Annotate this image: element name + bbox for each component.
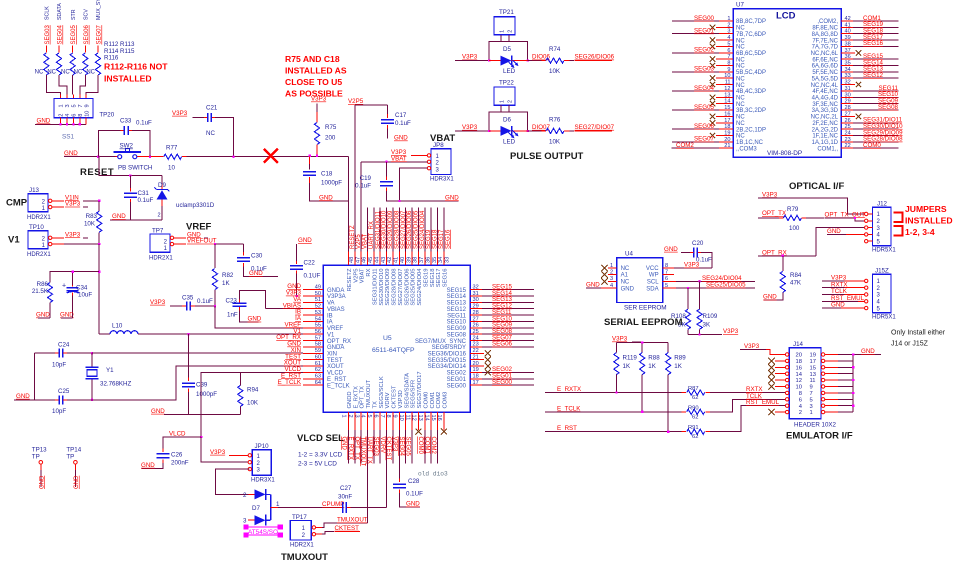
svg-text:8: 8 bbox=[665, 263, 668, 269]
net label V2P5 bbox=[348, 98, 387, 105]
jumper installed 1-2 bbox=[894, 213, 903, 223]
svg-text:GND: GND bbox=[341, 437, 347, 451]
U7 pin 36 6F,6E,NC bbox=[812, 53, 898, 63]
power GND label reset bbox=[64, 150, 78, 157]
U7 pin 26 2F,2E,NC bbox=[812, 117, 902, 127]
svg-text:SEG36/DIO16: SEG36/DIO16 bbox=[428, 352, 467, 358]
svg-text:3: 3 bbox=[65, 104, 71, 107]
net label GND J15Z bbox=[822, 302, 864, 309]
svg-text:2: 2 bbox=[799, 410, 802, 416]
junction reset-right bbox=[149, 156, 151, 158]
svg-text:COM0: COM0 bbox=[863, 142, 881, 149]
svg-text:SEG27/DIO07: SEG27/DIO07 bbox=[398, 269, 404, 306]
svg-text:1B,1C,NC: 1B,1C,NC bbox=[736, 140, 764, 146]
resistor R112 bbox=[35, 53, 49, 76]
connector TP17 bbox=[290, 514, 316, 549]
U5 pin 1 GNDD bbox=[341, 391, 353, 463]
title VBAT bbox=[430, 133, 455, 144]
title EMULATOR I/F bbox=[786, 431, 853, 442]
svg-text:5: 5 bbox=[665, 283, 668, 289]
svg-text:GNDD: GNDD bbox=[347, 391, 353, 408]
svg-text:5F,5E,NC: 5F,5E,NC bbox=[812, 70, 838, 76]
svg-text:46: 46 bbox=[362, 257, 368, 263]
U5 pin 24 SEG7/MUX_SYNC bbox=[415, 334, 534, 344]
U5 pin 15 COM2 bbox=[430, 392, 442, 464]
svg-text:HDR5X1: HDR5X1 bbox=[872, 315, 896, 321]
svg-text:J14 or J15Z: J14 or J15Z bbox=[891, 341, 929, 348]
svg-text:GND: GND bbox=[763, 294, 777, 301]
svg-text:C21: C21 bbox=[206, 105, 218, 112]
svg-text:1K: 1K bbox=[222, 280, 230, 287]
svg-text:GNDA: GNDA bbox=[327, 288, 344, 294]
wire XOUT bbox=[92, 366, 303, 400]
wire VREF to U5 bbox=[215, 306, 303, 328]
svg-text:DIO07: DIO07 bbox=[532, 124, 550, 131]
svg-text:COM3: COM3 bbox=[443, 392, 449, 409]
svg-text:6F,6E,NC: 6F,6E,NC bbox=[812, 57, 838, 63]
svg-text:U7: U7 bbox=[736, 2, 744, 9]
net label OPT_TX_OUT bbox=[806, 211, 865, 220]
svg-text:SEG02: SEG02 bbox=[447, 371, 467, 377]
svg-text:JUMPERS: JUMPERS bbox=[905, 204, 947, 214]
svg-text:45: 45 bbox=[368, 257, 374, 263]
U7 pin 24 1F,1E,NC bbox=[812, 129, 903, 139]
U5 pin 64 E_TCLK bbox=[278, 379, 350, 390]
svg-text:15: 15 bbox=[430, 415, 436, 421]
svg-text:SEG7/MUX_SYNC: SEG7/MUX_SYNC bbox=[415, 339, 467, 345]
svg-text:GND: GND bbox=[248, 316, 262, 323]
junction VBAT-C19 bbox=[385, 161, 387, 163]
svg-text:1nF: 1nF bbox=[227, 312, 238, 319]
U5 pin 63 E_RST bbox=[281, 372, 347, 383]
svg-text:44: 44 bbox=[375, 257, 381, 263]
svg-text:13: 13 bbox=[810, 372, 816, 378]
test point TP21 bbox=[494, 9, 515, 35]
svg-text:TP17: TP17 bbox=[292, 514, 307, 521]
junction C39-V1 bbox=[187, 333, 189, 335]
U5 pin 47 V2P5 bbox=[353, 105, 362, 283]
svg-text:NC: NC bbox=[736, 26, 745, 32]
svg-text:TP: TP bbox=[66, 454, 74, 461]
wire SEG06 stub bbox=[84, 46, 86, 53]
svg-text:D9: D9 bbox=[158, 182, 166, 189]
svg-text:36: 36 bbox=[425, 257, 431, 263]
U5 pin 35 SEG18 bbox=[430, 208, 439, 288]
svg-text:10pF: 10pF bbox=[52, 408, 66, 415]
svg-text:SEG5/SFR: SEG5/SFR bbox=[411, 380, 417, 409]
U5 pin 46 VBAT bbox=[360, 162, 369, 283]
junction C35-R82 bbox=[214, 305, 216, 307]
wire to SS1 bbox=[72, 75, 75, 99]
svg-text:R112-R116 NOT: R112-R116 NOT bbox=[104, 62, 168, 72]
svg-text:GND: GND bbox=[621, 286, 635, 292]
svg-text:1K: 1K bbox=[648, 363, 656, 370]
U5 pin 60 TEST bbox=[285, 353, 342, 364]
svg-text:V3P3: V3P3 bbox=[392, 437, 398, 452]
svg-text:C20: C20 bbox=[692, 240, 704, 247]
svg-text:1K: 1K bbox=[623, 363, 631, 370]
svg-text:OPT_TX: OPT_TX bbox=[360, 386, 366, 409]
svg-text:10: 10 bbox=[84, 111, 90, 117]
wire to SS1 bbox=[80, 75, 86, 99]
svg-text:VBIAS: VBIAS bbox=[327, 307, 345, 313]
svg-text:15: 15 bbox=[810, 365, 816, 371]
svg-text:1A,1G,1D: 1A,1G,1D bbox=[812, 140, 839, 146]
svg-text:62: 62 bbox=[692, 434, 698, 440]
U5 pin 26 SEG09 bbox=[447, 322, 534, 332]
svg-text:GND: GND bbox=[394, 135, 408, 142]
svg-text:U5: U5 bbox=[383, 335, 392, 342]
svg-text:9: 9 bbox=[392, 415, 398, 418]
net label SEG06 bbox=[84, 24, 90, 44]
svg-text:COM1: COM1 bbox=[423, 437, 429, 455]
resistor R76 bbox=[542, 116, 570, 145]
U5 pin 4 TMUXOUT bbox=[360, 379, 372, 523]
svg-text:U4: U4 bbox=[625, 251, 633, 258]
svg-text:63: 63 bbox=[315, 374, 321, 380]
svg-text:VLCD SEL: VLCD SEL bbox=[297, 433, 344, 444]
U5 pin 42 SEG29/DIO09 bbox=[385, 208, 394, 306]
title SERIAL EEPROM bbox=[604, 317, 683, 328]
net label GND TP7 bbox=[174, 231, 208, 238]
net label E_RXTX bbox=[545, 386, 682, 393]
svg-text:0.1uF: 0.1uF bbox=[395, 120, 411, 127]
svg-text:10K: 10K bbox=[84, 221, 96, 228]
junction SCL-R109 bbox=[699, 280, 701, 282]
svg-text:2: 2 bbox=[508, 30, 514, 33]
svg-text:INSTALLED: INSTALLED bbox=[104, 74, 152, 84]
svg-text:NC: NC bbox=[736, 57, 745, 63]
resistor R82 bbox=[212, 244, 234, 309]
svg-text:A1: A1 bbox=[621, 273, 629, 279]
U5 pin 56 V1 bbox=[293, 328, 335, 339]
svg-text:INSTALLED: INSTALLED bbox=[905, 216, 953, 226]
title VREF bbox=[186, 222, 212, 233]
svg-text:V3P3A: V3P3A bbox=[327, 294, 346, 300]
resistor R108 bbox=[671, 288, 691, 335]
svg-text:TP10: TP10 bbox=[29, 224, 44, 231]
svg-text:VLCD: VLCD bbox=[169, 431, 186, 438]
svg-text:SEG03: SEG03 bbox=[45, 24, 51, 44]
svg-text:0.1uF: 0.1uF bbox=[696, 257, 712, 264]
svg-text:R75: R75 bbox=[325, 124, 337, 131]
svg-text:SEG14: SEG14 bbox=[447, 294, 467, 300]
U5 pin 62 VLCD bbox=[284, 366, 343, 377]
svg-text:10K: 10K bbox=[549, 138, 561, 145]
svg-text:200: 200 bbox=[325, 135, 336, 142]
test point TP20 bbox=[99, 112, 114, 119]
resistor R74 bbox=[542, 46, 570, 75]
svg-text:3: 3 bbox=[353, 415, 359, 418]
svg-text:OPT_TX_OUT: OPT_TX_OUT bbox=[825, 211, 866, 218]
svg-text:RST_EMUL: RST_EMUL bbox=[746, 399, 780, 406]
test point TP22 bbox=[494, 79, 515, 105]
connector SS1 bbox=[54, 99, 93, 141]
svg-text:V3P3D: V3P3D bbox=[398, 390, 404, 408]
power V3P3 R block bbox=[612, 336, 642, 343]
svg-text:1F,1E,NC: 1F,1E,NC bbox=[812, 134, 838, 140]
U5 pin 32 SEG15 bbox=[447, 283, 534, 293]
U7 pin 9 5B,5C,4DP bbox=[672, 66, 766, 76]
net label V3P3 TP10 bbox=[52, 231, 88, 238]
U5 pin 37 SEG24/DIO04 bbox=[417, 208, 426, 306]
connector JP10 bbox=[248, 443, 275, 484]
svg-text:100: 100 bbox=[789, 225, 800, 232]
svg-text:GND: GND bbox=[445, 194, 459, 201]
wire VLCD to JP10 bbox=[201, 437, 249, 462]
svg-text:33: 33 bbox=[445, 257, 451, 263]
svg-text:VBAT: VBAT bbox=[391, 155, 407, 162]
svg-text:SDA: SDA bbox=[646, 286, 658, 292]
U5 pin 8 CKTEST bbox=[385, 385, 397, 464]
U7 pin 11 NC bbox=[710, 80, 746, 89]
wire TMUXOUT from TP17 bbox=[316, 517, 368, 528]
svg-text:6B,6C,5DP: 6B,6C,5DP bbox=[736, 51, 766, 57]
U7 pin 4 NC bbox=[710, 35, 746, 44]
svg-text:SEG19: SEG19 bbox=[423, 269, 429, 288]
svg-text:NC: NC bbox=[736, 76, 745, 82]
svg-text:12: 12 bbox=[796, 378, 802, 384]
svg-text:7F,7E,NC: 7F,7E,NC bbox=[812, 38, 838, 44]
svg-text:SEG37/DIO17: SEG37/DIO17 bbox=[417, 371, 423, 408]
connector JP8 bbox=[427, 142, 454, 183]
svg-text:NC: NC bbox=[206, 130, 215, 137]
svg-text:43: 43 bbox=[381, 257, 387, 263]
svg-text:6: 6 bbox=[665, 276, 668, 282]
wire SEG03 stub bbox=[45, 46, 47, 53]
svg-text:V3P3: V3P3 bbox=[172, 110, 188, 117]
svg-text:1: 1 bbox=[810, 410, 813, 416]
svg-text:200nF: 200nF bbox=[171, 460, 189, 467]
svg-text:NC,NC,6L: NC,NC,6L bbox=[811, 51, 839, 57]
capacitor C17 bbox=[381, 105, 411, 142]
svg-text:18: 18 bbox=[796, 359, 802, 365]
diode D9 uclamp3301D bbox=[155, 176, 215, 220]
svg-text:2A,2G,2D: 2A,2G,2D bbox=[812, 127, 839, 133]
svg-text:RX: RX bbox=[366, 268, 372, 276]
U5 pin 31 SEG14 bbox=[447, 290, 534, 300]
svg-text:1: 1 bbox=[610, 263, 613, 269]
svg-text:V3P3: V3P3 bbox=[65, 231, 81, 238]
svg-text:XOUT: XOUT bbox=[327, 364, 344, 370]
svg-text:1000pF: 1000pF bbox=[196, 391, 217, 398]
svg-text:PULSE OUTPUT: PULSE OUTPUT bbox=[510, 151, 584, 162]
svg-text:VA: VA bbox=[327, 301, 335, 307]
svg-text:V3P3: V3P3 bbox=[612, 336, 628, 343]
svg-text:E_RXTX: E_RXTX bbox=[347, 437, 353, 460]
svg-text:SEG3/SCLK: SEG3/SCLK bbox=[379, 376, 385, 408]
svg-text:SEG16: SEG16 bbox=[443, 269, 449, 288]
svg-text:SEG16: SEG16 bbox=[863, 40, 884, 47]
U5 pin 45 RX bbox=[366, 208, 375, 277]
U5 pin 33 SEG16 bbox=[443, 208, 452, 288]
net label SEG26/DIO06 bbox=[570, 54, 615, 61]
svg-text:TP14: TP14 bbox=[66, 447, 81, 454]
svg-text:UART_TX: UART_TX bbox=[366, 437, 372, 464]
svg-text:GND: GND bbox=[298, 237, 312, 244]
svg-text:NC: NC bbox=[621, 280, 630, 286]
title TMUXOUT bbox=[281, 552, 328, 563]
net label OPT_RX bbox=[758, 249, 816, 256]
svg-text:2: 2 bbox=[158, 213, 161, 219]
U7 pin 31 4F,4E,NC bbox=[812, 85, 898, 95]
svg-text:NC: NC bbox=[621, 266, 630, 272]
svg-text:3: 3 bbox=[810, 404, 813, 410]
net label MUX_SYN bbox=[96, 0, 102, 20]
wire SEG05 stub bbox=[72, 46, 74, 53]
U7 pin 19 NC bbox=[710, 131, 746, 140]
svg-text:TMUXOUT: TMUXOUT bbox=[281, 552, 328, 561]
svg-text:HDR2X1: HDR2X1 bbox=[149, 256, 173, 262]
LED D6 bbox=[489, 116, 528, 145]
svg-text:SEG09: SEG09 bbox=[447, 326, 467, 332]
svg-text:10: 10 bbox=[398, 415, 404, 421]
svg-text:NC: NC bbox=[35, 70, 44, 76]
title CMP bbox=[6, 198, 28, 209]
U7 pin 21 ,,COM3 bbox=[672, 142, 758, 152]
no-connect X J14 pin 10 bbox=[768, 383, 785, 389]
svg-text:SEG25/DIO05: SEG25/DIO05 bbox=[411, 269, 417, 306]
U5 pin 13 COM0 bbox=[417, 392, 429, 464]
text J14 or J15Z bbox=[891, 341, 929, 348]
designators R114 R115 bbox=[104, 48, 135, 55]
svg-text:NC: NC bbox=[736, 115, 745, 121]
U5 pin 17 SEG00 bbox=[447, 379, 534, 389]
svg-text:SEG07: SEG07 bbox=[97, 24, 103, 44]
svg-text:HEADER 10X2: HEADER 10X2 bbox=[794, 422, 837, 429]
svg-text:4A,4G,4D: 4A,4G,4D bbox=[812, 96, 839, 102]
warning text R112-R116 NOT INSTALLED bbox=[104, 62, 168, 84]
svg-text:OPT_TX: OPT_TX bbox=[762, 210, 786, 217]
svg-text:SCV: SCV bbox=[84, 9, 90, 20]
svg-text:4B,4C,3DP: 4B,4C,3DP bbox=[736, 89, 766, 95]
svg-text:2: 2 bbox=[59, 114, 65, 117]
net label SEG07 bbox=[97, 24, 103, 44]
svg-text:Only Install either: Only Install either bbox=[891, 330, 946, 337]
net label SEG05 bbox=[71, 24, 77, 44]
U7 pin 20 1B,1C,NC bbox=[672, 136, 764, 146]
svg-text:V2P5: V2P5 bbox=[353, 269, 359, 283]
no-connect X on reset line bbox=[264, 149, 278, 163]
svg-text:J15Z: J15Z bbox=[875, 267, 889, 274]
U5 pin 41 SEG28/DIO08 bbox=[392, 208, 401, 306]
wire to SS1 bbox=[86, 75, 98, 99]
svg-text:TMUXOUT: TMUXOUT bbox=[337, 517, 368, 524]
svg-text:R119: R119 bbox=[623, 355, 638, 362]
svg-text:SEG17: SEG17 bbox=[436, 269, 442, 288]
U7 pin 18 2B,2C,1DP bbox=[672, 123, 766, 133]
svg-text:OPTICAL I/F: OPTICAL I/F bbox=[789, 181, 844, 192]
junction OPT_RX bbox=[782, 255, 784, 257]
svg-text:E_TCLK: E_TCLK bbox=[278, 379, 302, 386]
svg-text:R87: R87 bbox=[688, 386, 699, 392]
net label DIO06 bbox=[528, 54, 551, 61]
junction C22-V3P3 bbox=[296, 295, 298, 297]
U7 pin 30 4A,4G,4D bbox=[812, 91, 899, 101]
svg-text:2: 2 bbox=[508, 100, 514, 103]
crystal Y1 32.768KHZ bbox=[86, 353, 132, 400]
svg-text:SEG13: SEG13 bbox=[447, 301, 467, 307]
diode D7 dual bbox=[243, 489, 280, 526]
svg-text:3K: 3K bbox=[703, 322, 711, 329]
svg-text:HDR5X1: HDR5X1 bbox=[872, 248, 896, 254]
net label TCLK J15Z bbox=[822, 288, 864, 295]
U5 pin 10 SEG4/SDATA bbox=[398, 373, 410, 464]
svg-text:CKTEST: CKTEST bbox=[335, 525, 360, 532]
svg-text:CKTEST: CKTEST bbox=[392, 385, 398, 408]
wire J14 right pins to GND bbox=[825, 348, 881, 412]
U7 pin 39 7F,7E,NC bbox=[812, 34, 898, 44]
U7 pin 41 8F,8E,NC bbox=[812, 21, 898, 31]
svg-text:49: 49 bbox=[315, 284, 321, 290]
U4 pin 5 SDA SEG25/DIO05 bbox=[663, 282, 755, 289]
wire R108 R109 to V3P3 bbox=[688, 328, 739, 335]
connector J15Z bbox=[865, 267, 897, 320]
svg-text:TP21: TP21 bbox=[499, 9, 514, 16]
resistor R109 bbox=[697, 281, 718, 334]
junction R88-E_TCLK bbox=[641, 411, 643, 413]
svg-text:4: 4 bbox=[65, 114, 71, 117]
svg-text:C33: C33 bbox=[120, 118, 132, 125]
svg-text:52: 52 bbox=[315, 304, 321, 310]
resistor R94 bbox=[238, 372, 259, 414]
title PULSE OUTPUT bbox=[510, 151, 584, 162]
svg-text:9: 9 bbox=[84, 104, 90, 107]
U5 pin 7 VDRV bbox=[379, 392, 391, 507]
svg-text:10: 10 bbox=[168, 165, 175, 172]
IC U7 LCD VIM-808-DP bbox=[733, 2, 841, 158]
resistor R115 bbox=[74, 53, 88, 76]
svg-text:SEG07: SEG07 bbox=[694, 136, 715, 143]
svg-text:VLCD: VLCD bbox=[327, 371, 344, 377]
svg-text:PB SWITCH: PB SWITCH bbox=[118, 165, 152, 172]
wire JP10 pin3 to D7 bbox=[216, 469, 250, 494]
svg-text:0.1UF: 0.1UF bbox=[304, 273, 321, 280]
svg-text:V1: V1 bbox=[327, 332, 335, 338]
svg-text:SEG6/SRDY: SEG6/SRDY bbox=[432, 345, 466, 351]
U5 pin 51 VA bbox=[293, 296, 334, 307]
wire to SS1 bbox=[46, 75, 60, 99]
U5 pin 3 OPT_TX bbox=[353, 386, 365, 464]
resistor R83 bbox=[84, 201, 102, 244]
svg-text:C22: C22 bbox=[304, 260, 316, 267]
net label OPT_TX bbox=[758, 210, 786, 218]
svg-text:R84: R84 bbox=[790, 272, 802, 279]
net label STR bbox=[71, 9, 77, 20]
svg-text:uclamp3301D: uclamp3301D bbox=[176, 202, 215, 209]
svg-text:SEG06: SEG06 bbox=[694, 123, 715, 130]
U7 pin 35 6A,6G,6D bbox=[812, 59, 899, 69]
svg-text:C18: C18 bbox=[321, 171, 333, 178]
svg-text:1-2 = 3.3V LCD: 1-2 = 3.3V LCD bbox=[298, 452, 343, 459]
svg-text:SEG00: SEG00 bbox=[492, 379, 513, 386]
U4 pin 3 NC bbox=[601, 276, 616, 284]
svg-text:SEG15: SEG15 bbox=[447, 288, 467, 294]
svg-text:51: 51 bbox=[315, 297, 321, 303]
svg-text:7B,7C,6DP: 7B,7C,6DP bbox=[736, 32, 766, 38]
svg-text:NC: NC bbox=[736, 96, 745, 102]
U5 pin 36 SEG19 bbox=[423, 208, 432, 288]
svg-text:GND: GND bbox=[861, 348, 875, 355]
U5 pin 40 SEG27/DIO07 bbox=[398, 208, 407, 306]
svg-text:SCL: SCL bbox=[647, 280, 659, 286]
svg-text:V3P3: V3P3 bbox=[462, 54, 478, 61]
net label GND J12 bbox=[827, 228, 864, 235]
junction C18-reset bbox=[309, 155, 311, 157]
U5 pin 14 COM1 bbox=[423, 392, 435, 464]
wire reset main line bbox=[64, 156, 348, 158]
svg-text:62: 62 bbox=[692, 395, 698, 401]
